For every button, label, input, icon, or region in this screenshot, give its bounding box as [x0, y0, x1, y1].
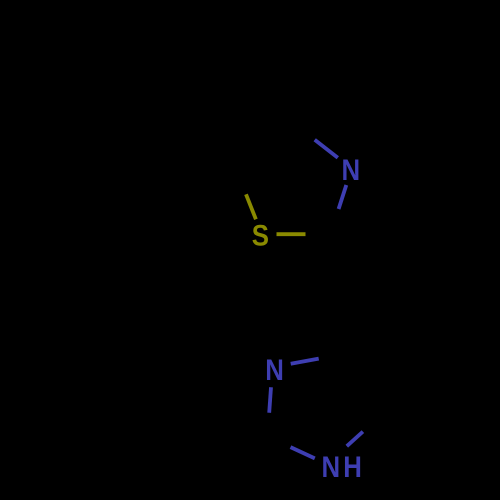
svg-text:N: N: [321, 450, 340, 483]
svg-text:H: H: [343, 450, 362, 483]
wire N3'-C2' half-bond: [269, 387, 271, 413]
wire S-C5 half-bond: [246, 194, 256, 219]
wire N3'-C4' half-bond: [291, 359, 319, 364]
svg-text:N: N: [341, 153, 360, 186]
wire S-C2 half-bond: [277, 232, 306, 236]
imidazole ring: [269, 359, 363, 459]
svg-text:S: S: [252, 219, 269, 252]
wire N1'-C5' half-bond: [347, 432, 363, 447]
svg-text:N: N: [265, 353, 284, 386]
thiazole ring: [246, 140, 346, 234]
wire N-C4 half-bond: [315, 140, 338, 158]
wire N1'-C2' half-bond: [291, 447, 315, 458]
wire N-C2 half-bond: [339, 185, 347, 209]
